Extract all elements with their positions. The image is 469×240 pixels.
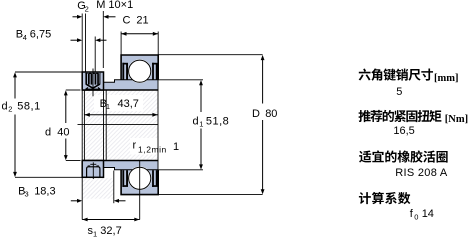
svg-text:6,75: 6,75 <box>30 29 51 41</box>
svg-text:C: C <box>123 15 131 27</box>
axis centerline <box>78 124 158 126</box>
svg-text:5: 5 <box>396 86 402 98</box>
svg-text:80: 80 <box>265 108 277 120</box>
label box B1 <box>94 95 143 111</box>
screw centermark <box>92 162 94 179</box>
grub screw M10x1 section <box>85 73 100 89</box>
svg-text:d: d <box>45 127 51 139</box>
label box r <box>130 138 184 155</box>
inner ring bottom edges <box>104 168 159 170</box>
seal bottom <box>122 170 124 187</box>
svg-text:58,1: 58,1 <box>17 100 41 112</box>
heading tightening torque <box>358 110 441 122</box>
raceway bottom <box>128 166 152 190</box>
grub screw centerline <box>92 69 94 97</box>
dimension B4 <box>71 37 107 73</box>
dimension d <box>64 90 81 161</box>
svg-text:D: D <box>252 108 260 120</box>
svg-text:[Nm]: [Nm] <box>445 114 468 125</box>
ball axis line bottom <box>139 161 141 220</box>
svg-text:40: 40 <box>57 127 69 139</box>
heading hex key size <box>359 68 433 80</box>
extension line B1 left <box>83 90 85 161</box>
dimension d1 <box>158 80 203 170</box>
svg-text:1: 1 <box>173 141 179 153</box>
svg-text:2: 2 <box>85 4 89 13</box>
svg-text:r: r <box>133 139 137 151</box>
svg-text:3: 3 <box>25 190 29 199</box>
svg-text:21: 21 <box>136 15 148 27</box>
outer ring bottom section <box>121 170 158 195</box>
svg-text:[mm]: [mm] <box>434 73 459 84</box>
svg-text:1: 1 <box>199 120 203 129</box>
extension line mid <box>105 90 107 161</box>
dimension C <box>121 32 158 56</box>
ball bottom <box>129 167 151 189</box>
outer ring bottom outline <box>121 170 158 195</box>
shaft section hatch below bottom collar <box>82 178 114 199</box>
extension collar left face middle <box>81 90 83 161</box>
svg-text:1: 1 <box>93 229 97 238</box>
svg-text:d: d <box>193 115 199 127</box>
dimension B1 <box>84 113 157 117</box>
collar top section <box>82 72 103 90</box>
svg-text:14: 14 <box>422 208 434 220</box>
dimension B3 <box>71 171 126 220</box>
raceway top <box>128 59 152 83</box>
grub screw bottom outline <box>87 167 100 178</box>
collar bottom elevation <box>82 161 103 178</box>
svg-text:4: 4 <box>23 33 27 42</box>
svg-text:2: 2 <box>8 105 12 114</box>
extension outer ring right face middle <box>157 80 159 170</box>
dimension d2 <box>13 72 82 177</box>
svg-text:51,8: 51,8 <box>206 115 229 127</box>
svg-text:M 10×1: M 10×1 <box>96 0 133 11</box>
heading suitable rubber seating ring <box>359 150 448 162</box>
svg-text:d: d <box>2 100 8 112</box>
shaft section hatch bore region <box>82 90 158 161</box>
inner ring top edges <box>104 80 159 83</box>
seal top <box>152 63 154 80</box>
svg-text:1,2min: 1,2min <box>138 145 167 155</box>
svg-text:0: 0 <box>414 213 418 222</box>
extension collar right face middle <box>103 90 105 161</box>
outer ring top outline <box>121 55 158 80</box>
inner ring top section <box>104 80 159 90</box>
ball top <box>129 60 151 82</box>
svg-text:RIS 208 A: RIS 208 A <box>395 167 448 179</box>
seal top <box>122 63 124 80</box>
seal bottom <box>152 170 154 187</box>
dimension G2 M10x1 <box>73 11 116 72</box>
inner ring bottom section <box>104 161 159 170</box>
svg-text:1: 1 <box>106 102 110 111</box>
svg-text:43,7: 43,7 <box>118 98 139 110</box>
dimension s1 <box>82 218 140 222</box>
outer ring top section <box>121 55 158 80</box>
heading calculation factor <box>359 192 410 204</box>
svg-text:16,5: 16,5 <box>393 125 414 137</box>
svg-text:32,7: 32,7 <box>100 225 121 237</box>
svg-text:18,3: 18,3 <box>34 185 55 197</box>
dimension D <box>158 55 264 195</box>
